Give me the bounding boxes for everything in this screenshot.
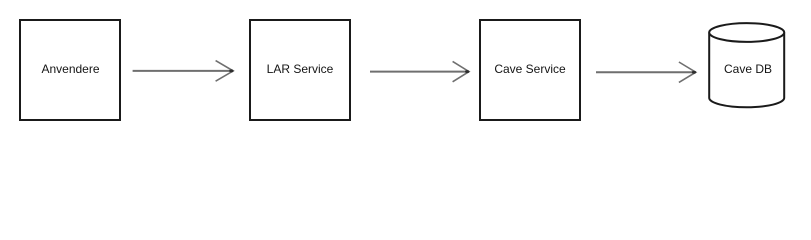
svg-text:Cave Service: Cave Service bbox=[494, 62, 566, 76]
svg-text:Anvendere: Anvendere bbox=[41, 62, 99, 76]
box Anvendere bbox=[20, 20, 120, 120]
arrow 2 (LAR Service to Cave Service) bbox=[370, 61, 469, 81]
arrow 1 (Anvendere to LAR Service) bbox=[133, 61, 234, 82]
svg-text:Cave DB: Cave DB bbox=[724, 62, 772, 76]
svg-text:LAR Service: LAR Service bbox=[267, 62, 334, 76]
box Cave Service bbox=[480, 20, 580, 120]
cylinder Cave DB bbox=[709, 23, 784, 107]
arrow 3 (Cave Service to Cave DB) bbox=[596, 62, 696, 82]
box LAR Service bbox=[250, 20, 350, 120]
